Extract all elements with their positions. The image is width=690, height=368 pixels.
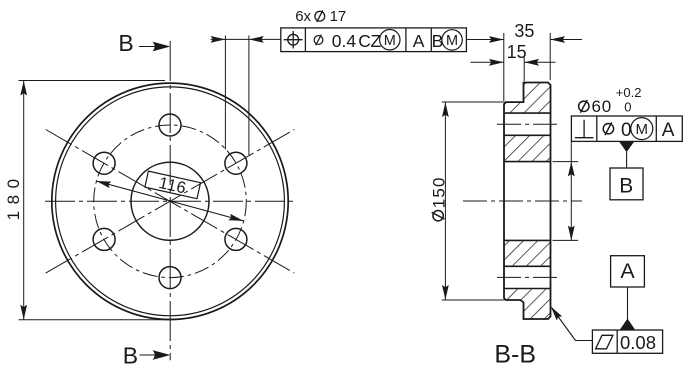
svg-text:0.4: 0.4 [332, 31, 357, 51]
svg-text:A: A [413, 31, 425, 51]
svg-text:CZ: CZ [358, 31, 381, 51]
svg-text:A: A [620, 259, 635, 283]
svg-text:B: B [118, 30, 133, 56]
svg-text:17: 17 [330, 8, 347, 25]
svg-text:A: A [662, 120, 675, 141]
svg-text:0: 0 [621, 120, 632, 141]
svg-text:+0.2: +0.2 [616, 85, 642, 100]
svg-text:B: B [123, 342, 138, 368]
svg-text:150: 150 [429, 176, 448, 208]
svg-text:0.08: 0.08 [620, 332, 656, 353]
svg-text:0: 0 [624, 100, 631, 115]
svg-text:6x: 6x [295, 8, 311, 25]
svg-text:60: 60 [592, 97, 613, 116]
svg-text:15: 15 [507, 42, 527, 62]
svg-text:B-B: B-B [494, 341, 536, 368]
svg-text:180: 180 [4, 172, 23, 220]
svg-text:B: B [619, 174, 633, 197]
svg-text:35: 35 [514, 21, 534, 41]
